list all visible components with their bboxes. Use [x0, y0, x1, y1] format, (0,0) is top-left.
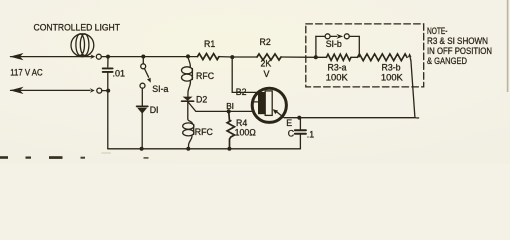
- caption fragment 2: [26, 157, 32, 159]
- resistor R1: [198, 54, 220, 60]
- svg-text:100Ω: 100Ω: [235, 128, 257, 138]
- capacitor C bottom lead: [299, 134, 301, 148]
- svg-text:2K: 2K: [261, 59, 272, 69]
- lamp base junction dot: [81, 54, 84, 57]
- lamp loops: [76, 34, 85, 56]
- connector arrowhead on lower line: [90, 88, 95, 93]
- junction dot node A: [106, 55, 110, 59]
- svg-text:D2: D2: [196, 94, 207, 104]
- page edge line right: [507, 0, 509, 92]
- junction dot node C: [230, 55, 234, 59]
- switch S1-a stub: [142, 57, 144, 64]
- capacitor .01 bottom lead down to bottom rail: [107, 72, 109, 148]
- svg-text:.01: .01: [113, 69, 126, 79]
- switch S1-a bottom contact circle: [140, 83, 145, 88]
- wire B2 vertical and lead: [232, 57, 259, 92]
- switch S1-a top contact circle: [141, 64, 146, 69]
- switch S1-b right vertical: [358, 36, 360, 56]
- switch S1-b left contact circle: [325, 34, 330, 39]
- potentiometer R3-b: [358, 54, 408, 61]
- wire: lower AC line: [11, 89, 91, 91]
- wire R1 to node C: [219, 56, 257, 58]
- caption fragment 4: [81, 157, 86, 159]
- diode D1 cathode bar: [137, 105, 148, 107]
- junction dot S1-b left: [314, 55, 318, 59]
- junction dot node B: [106, 89, 110, 93]
- switch S1-b left vertical: [315, 36, 317, 57]
- inductor RFC1 loops: [182, 67, 193, 74]
- wire D2 to RFC2: [188, 102, 193, 124]
- svg-text:.1: .1: [307, 129, 314, 139]
- resistor R4: [227, 111, 234, 148]
- switch S1-b top wire left: [316, 35, 325, 37]
- svg-text:RFC: RFC: [195, 127, 214, 137]
- diode D2 triangle: [183, 97, 193, 101]
- wiper arrowhead: [408, 53, 412, 58]
- wire R2 to dashed box: [281, 56, 327, 58]
- wire B1 lead: [229, 110, 255, 112]
- svg-text:C: C: [288, 128, 295, 138]
- dashed box (ganged control): [306, 24, 424, 87]
- wire D2 node to B1 node: [188, 102, 229, 112]
- potentiometer R3-a: [327, 54, 352, 60]
- svg-text:117 V AC: 117 V AC: [10, 66, 43, 77]
- arrowhead left (top AC line): [10, 53, 24, 60]
- caption fragment 1: [0, 156, 8, 159]
- connector open circle (top line): [96, 54, 101, 59]
- tube bar outlined: [265, 91, 272, 116]
- tube bar filled: [258, 92, 265, 114]
- svg-text:SI-a: SI-a: [152, 84, 168, 94]
- svg-text:R2: R2: [260, 37, 271, 47]
- diode D1 triangle: [137, 108, 147, 114]
- connector open circle (lower line): [97, 88, 102, 93]
- resistor R2: [257, 54, 281, 60]
- svg-text:BI: BI: [226, 102, 234, 111]
- svg-text:CONTROLLED LIGHT: CONTROLLED LIGHT: [34, 22, 121, 33]
- svg-text:R1: R1: [204, 39, 215, 49]
- svg-text:SI-b: SI-b: [326, 39, 342, 49]
- inductor RFC2 right side: [193, 125, 195, 135]
- caption fragment 5: [144, 157, 149, 159]
- wire S1-a to D1: [141, 88, 143, 105]
- caption fragment 3: [49, 156, 63, 159]
- wire bottom rail: [108, 148, 301, 150]
- junction dot RFC2-rail: [186, 147, 190, 151]
- diode D2 cathode bar: [182, 100, 194, 102]
- wire to junction: [102, 90, 108, 92]
- svg-text:100K: 100K: [381, 71, 404, 82]
- capacitor .01 top lead: [107, 57, 109, 67]
- connector arrowhead on top line: [90, 54, 95, 59]
- inductor RFC1 bottom lead: [188, 81, 191, 97]
- junction dot E/C: [297, 116, 301, 120]
- switch S1-a blade arrowhead: [147, 78, 151, 83]
- wire R3-a to R3-b: [351, 56, 358, 58]
- svg-text:RFC: RFC: [196, 71, 215, 81]
- inductor RFC1 top lead: [188, 56, 190, 66]
- svg-text:E: E: [286, 118, 292, 128]
- switch S1-b blade: [330, 35, 337, 37]
- switch S1-b right contact circle: [344, 34, 349, 39]
- wiper arrow R3-b shaft: [409, 57, 412, 61]
- svg-text:V: V: [264, 69, 270, 79]
- wire E lead: [284, 117, 415, 119]
- switch S1-b top wire right: [349, 35, 359, 37]
- inductor RFC2 loops: [183, 123, 194, 129]
- junction dot D1-rail: [140, 147, 144, 151]
- caption fragment faint: [102, 152, 112, 153]
- inductor RFC1 right side: [191, 69, 193, 80]
- junction dot R4-rail: [227, 147, 231, 151]
- switch S1-a junction dot: [141, 55, 145, 59]
- arrowhead left (lower AC line): [10, 87, 24, 94]
- svg-text:DI: DI: [150, 105, 159, 115]
- wire wiper vertical down to E line: [411, 60, 419, 118]
- wire: top AC line: [11, 56, 92, 58]
- svg-text:& GANGED: & GANGED: [427, 55, 467, 66]
- tube emitter arrowhead: [273, 109, 279, 114]
- svg-text:R4: R4: [236, 118, 247, 128]
- capacitor C plates: [295, 130, 306, 134]
- switch S1-b blade arrowhead: [336, 34, 343, 39]
- capacitor .01 plates: [103, 68, 113, 72]
- capacitor C top lead: [299, 118, 301, 129]
- tube V envelope circle: [252, 88, 286, 122]
- wire D1 to bottom rail: [141, 114, 143, 149]
- junction dot B1/R4: [227, 109, 231, 113]
- tube emitter arrow line: [276, 112, 283, 118]
- svg-text:B2: B2: [236, 87, 247, 97]
- inductor RFC2 bottom lead: [189, 136, 193, 149]
- switch S1-a blade: [145, 69, 149, 77]
- svg-text:100K: 100K: [326, 71, 349, 82]
- lamp CONTROLLED LIGHT circle: [71, 34, 94, 57]
- wire top rail A to R1: [102, 56, 198, 58]
- tube inner stub: [252, 101, 258, 103]
- junction dot RFC1 top: [186, 54, 190, 58]
